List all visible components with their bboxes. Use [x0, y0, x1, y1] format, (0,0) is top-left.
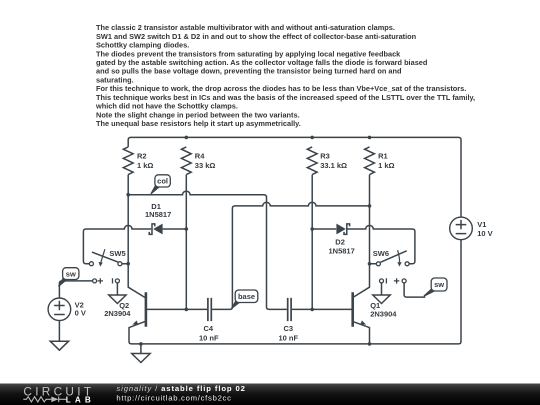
svg-text:0 V: 0 V [75, 308, 86, 317]
svg-text:which did not have the Schottk: which did not have the Schottky clamps. [95, 102, 238, 111]
svg-text:V1: V1 [477, 220, 486, 229]
svg-text:10 nF: 10 nF [199, 334, 219, 343]
svg-text:10 nF: 10 nF [279, 334, 299, 343]
svg-text:Note the slight change in peri: Note the slight change in period between… [96, 110, 300, 119]
svg-text:33.1 kΩ: 33.1 kΩ [320, 161, 347, 170]
svg-text:For this technique to work, th: For this technique to work, the drop acr… [96, 84, 466, 93]
svg-text:sw: sw [66, 269, 76, 278]
svg-text:R4: R4 [195, 152, 205, 161]
svg-text:base: base [238, 292, 255, 301]
svg-text:The unequal base resistors hel: The unequal base resistors help it start… [96, 119, 301, 128]
svg-text:1 kΩ: 1 kΩ [378, 161, 394, 170]
svg-text:Q1: Q1 [370, 301, 380, 310]
svg-text:D2: D2 [335, 237, 345, 246]
svg-text:The classic 2 transistor astab: The classic 2 transistor astable multivi… [96, 23, 395, 32]
svg-text:http://circuitlab.com/cfsb2cc: http://circuitlab.com/cfsb2cc [116, 394, 231, 403]
svg-text:gated by the astable switching: gated by the astable switching action. A… [96, 58, 428, 67]
svg-text:sw: sw [434, 280, 444, 289]
svg-text:1 kΩ: 1 kΩ [137, 161, 153, 170]
svg-text:R2: R2 [137, 152, 147, 161]
svg-text:and so pulls the base voltage: and so pulls the base voltage down, prev… [96, 67, 402, 76]
svg-text:col: col [157, 177, 168, 186]
svg-text:SW6: SW6 [373, 249, 389, 258]
svg-text:saturating.: saturating. [96, 75, 134, 84]
svg-text:LAB: LAB [66, 396, 95, 405]
svg-text:The diodes prevent the transis: The diodes prevent the transistors from … [96, 49, 401, 58]
svg-text:signality / astable flip flop: signality / astable flip flop 02 [116, 384, 245, 393]
svg-text:SW5: SW5 [109, 249, 125, 258]
svg-text:SW1 and SW2 switch D1 & D2 in: SW1 and SW2 switch D1 & D2 in and out to… [96, 32, 417, 41]
svg-text:R3: R3 [320, 152, 330, 161]
svg-text:This technique works best in I: This technique works best in ICs and was… [96, 93, 475, 102]
svg-text:1N5817: 1N5817 [145, 210, 171, 219]
svg-text:2N3904: 2N3904 [370, 310, 397, 319]
svg-text:R1: R1 [378, 152, 388, 161]
svg-text:Schottky clamping diodes.: Schottky clamping diodes. [96, 41, 189, 50]
svg-text:C4: C4 [204, 324, 214, 333]
svg-text:2N3904: 2N3904 [104, 309, 131, 318]
svg-text:10 V: 10 V [477, 229, 492, 238]
svg-text:C3: C3 [284, 324, 294, 333]
svg-text:1N5817: 1N5817 [329, 246, 355, 255]
svg-text:33 kΩ: 33 kΩ [195, 161, 216, 170]
